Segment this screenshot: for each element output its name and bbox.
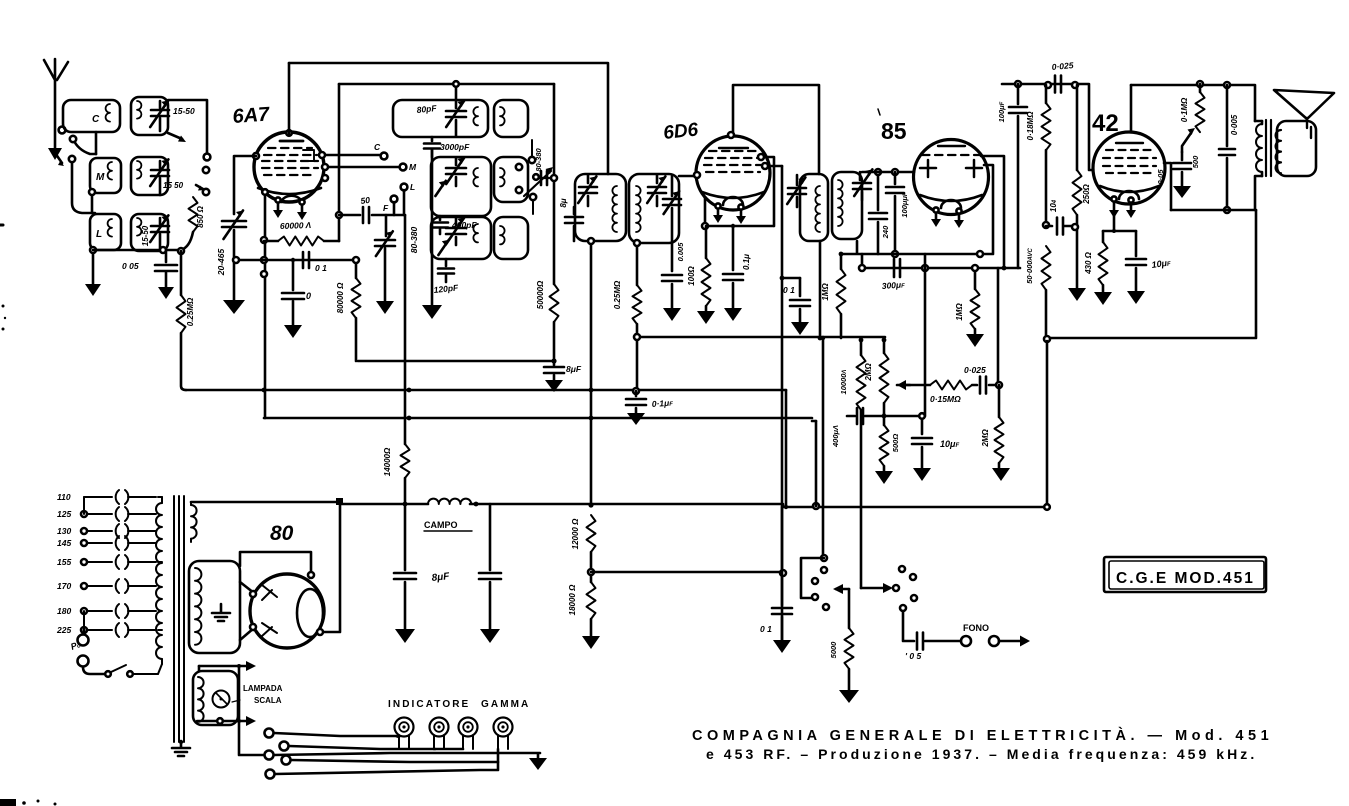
6A7 pin 1 xyxy=(273,197,283,218)
wire 85 plate right xyxy=(842,165,993,254)
terminal S3 xyxy=(203,189,209,195)
wire af row xyxy=(897,384,930,387)
wire avc down xyxy=(997,268,1000,385)
tube 6A7 xyxy=(254,132,324,202)
80 filament b xyxy=(262,623,277,636)
IF1 loops right xyxy=(636,186,641,232)
label 400uu xyxy=(831,425,840,448)
svg-text:850 Ω: 850 Ω xyxy=(196,205,205,228)
filament winding xyxy=(191,502,197,542)
IF2 trimmer left xyxy=(787,175,806,207)
42 cathode wire xyxy=(1103,212,1136,233)
svg-text:6D6: 6D6 xyxy=(662,119,699,144)
label 2M vol xyxy=(864,363,873,382)
label 850 ohm xyxy=(196,205,205,228)
terminal C osc xyxy=(374,142,387,159)
HV top wire xyxy=(240,552,311,572)
svg-text:8μF: 8μF xyxy=(566,364,582,374)
resistor 850 ohm xyxy=(189,197,198,232)
osc box2b loops xyxy=(500,168,505,186)
osc box3 trimmer xyxy=(446,217,466,245)
IF2 loops left xyxy=(815,186,820,232)
tap verticals xyxy=(84,497,88,630)
svg-text:0 1: 0 1 xyxy=(315,263,327,273)
svg-text:80: 80 xyxy=(270,522,294,545)
label 120pF xyxy=(433,282,459,295)
osc box2 xyxy=(431,157,491,216)
label 60000 xyxy=(280,220,312,231)
wire M-L link xyxy=(89,189,95,213)
outer top bus xyxy=(289,63,608,174)
svg-text:0 05: 0 05 xyxy=(122,261,139,271)
switch R contacts xyxy=(893,566,917,611)
osc box1b loops xyxy=(500,107,505,125)
wire band1 to term xyxy=(168,100,207,153)
osc padder 80-380a xyxy=(375,215,395,314)
resistor 50000 avc xyxy=(1042,246,1051,338)
svg-text:170: 170 xyxy=(57,581,71,591)
mains plug 1 xyxy=(78,630,89,646)
capacitor 300uF xyxy=(894,259,900,277)
wire L bottom to gnd xyxy=(85,247,101,296)
6A7 grids xyxy=(262,148,318,175)
label CAMPO xyxy=(424,520,472,531)
svg-text:155: 155 xyxy=(57,557,71,567)
terminal strip xyxy=(265,729,291,779)
wire 6D6 rect xyxy=(781,166,784,641)
svg-text:0.1μ: 0.1μ xyxy=(742,254,751,270)
svg-text:L: L xyxy=(96,229,102,240)
box CGE MOD451 xyxy=(1104,557,1266,592)
label 14000 xyxy=(383,447,392,476)
capacitor 120pF xyxy=(438,259,454,282)
wire 0.025 row xyxy=(1002,84,1093,170)
wire 6A7 g right M xyxy=(322,164,398,170)
svg-text:0 1: 0 1 xyxy=(783,285,795,295)
label 0.1M out xyxy=(1180,97,1189,122)
osc box3b loops xyxy=(500,226,505,244)
transformer core xyxy=(174,496,184,742)
wire 80 plate top xyxy=(191,502,340,632)
osc box2b xyxy=(494,157,528,202)
svg-text:18000 Ω: 18000 Ω xyxy=(568,584,577,615)
IF2 trimmer right xyxy=(853,169,872,200)
trimmer 15-50 b xyxy=(150,159,169,195)
wire box1 top xyxy=(453,81,459,100)
osc box3 xyxy=(431,217,491,259)
resistor 80000 xyxy=(352,257,361,361)
wire ant to M xyxy=(70,136,96,154)
label 0.025 af xyxy=(964,365,986,375)
switch arm S xyxy=(196,185,205,191)
resistor 430 xyxy=(1094,231,1112,305)
42 pin 2 xyxy=(1126,197,1136,218)
coil L box xyxy=(90,214,121,250)
band coil 1 loops xyxy=(137,101,141,119)
wire 6A7 left xyxy=(234,156,256,214)
label 18000 xyxy=(568,584,577,615)
label L xyxy=(96,229,102,240)
resistor 50000 osc xyxy=(550,284,559,361)
osc box2 loops xyxy=(473,168,478,186)
node avc xyxy=(1043,222,1049,228)
svg-text:3000pF: 3000pF xyxy=(440,142,470,152)
label 6A7 xyxy=(232,103,271,128)
label 0.05 ant xyxy=(122,261,139,271)
tone arrow xyxy=(1182,128,1195,152)
label 500 tone xyxy=(1191,155,1200,168)
band coil 3 loops xyxy=(137,218,141,236)
svg-text:15 50: 15 50 xyxy=(163,181,184,190)
svg-text:GAMMA: GAMMA xyxy=(481,699,530,710)
resistor 1000 6D6 xyxy=(697,226,715,324)
switch L contacts xyxy=(812,555,829,610)
6D6 cathode xyxy=(702,192,764,205)
svg-text:400μΛ: 400μΛ xyxy=(831,425,840,448)
HV winding box xyxy=(189,561,240,653)
capacitor 0.005 gnd xyxy=(662,275,682,321)
indicator wire 2b xyxy=(434,748,463,751)
label 500 vol xyxy=(891,434,900,453)
indicator lamps xyxy=(395,718,513,750)
svg-text:C.G.E MOD.451: C.G.E MOD.451 xyxy=(1116,570,1255,587)
wire IF1 left down xyxy=(588,238,594,505)
wire osc grid up xyxy=(336,84,342,241)
svg-text:500Ω: 500Ω xyxy=(891,434,900,453)
lamp feed vertical xyxy=(237,664,263,755)
osc box3 loops xyxy=(473,224,478,242)
svg-text:80-380: 80-380 xyxy=(409,226,419,253)
lamp wire top xyxy=(199,661,256,671)
svg-text:LAMPADA: LAMPADA xyxy=(243,684,283,693)
svg-text:100Ω: 100Ω xyxy=(687,265,696,285)
80 pins xyxy=(250,572,323,635)
node t1 xyxy=(1015,81,1078,88)
osc term r1 xyxy=(516,140,535,170)
capacitor 0.1 6D6 xyxy=(723,224,743,321)
capacitor 0.05 ant xyxy=(155,250,177,299)
6A7 grid box xyxy=(303,150,314,161)
wire C bottom to M top xyxy=(95,132,98,154)
resistor 10000 vol xyxy=(857,355,866,410)
bus G xyxy=(1044,210,1256,342)
mains plug 2 xyxy=(78,656,89,667)
svg-text:6A7: 6A7 xyxy=(232,103,271,128)
svg-text:e 453 RF. – Produzione 1937. –: e 453 RF. – Produzione 1937. – Media fre… xyxy=(706,746,1257,762)
label 1M 85 xyxy=(955,303,964,321)
dial lamp xyxy=(213,691,230,708)
capacitor 8uF A xyxy=(544,358,564,392)
svg-text:0·025: 0·025 xyxy=(1051,60,1074,72)
svg-text:0.005: 0.005 xyxy=(676,242,685,262)
label 10uF af xyxy=(940,439,959,449)
capacitor 500 tone xyxy=(1173,152,1191,198)
80 plate xyxy=(297,589,323,637)
85 diode plates xyxy=(920,160,982,177)
svg-text:0·05: 0·05 xyxy=(1156,169,1165,185)
svg-text:F: F xyxy=(383,203,389,213)
label CGE MOD451 xyxy=(1116,570,1255,587)
HV loops xyxy=(195,568,201,645)
6A7 top lead xyxy=(288,63,291,134)
label INDICATORE xyxy=(388,699,530,710)
svg-text:12000 Ω: 12000 Ω xyxy=(571,518,580,549)
label 0.18M xyxy=(1026,111,1035,141)
resistor 18000 xyxy=(582,552,600,649)
label 2M af xyxy=(981,429,990,448)
indicator wire 2 xyxy=(289,746,435,749)
label 0.1 F xyxy=(760,624,772,634)
wire ant-L xyxy=(69,156,95,213)
osc box3 arrow xyxy=(438,240,448,255)
label 240 xyxy=(881,225,890,239)
label 0.1 85 xyxy=(783,285,795,295)
IF1 box left xyxy=(575,174,626,241)
wire G down xyxy=(1044,341,1050,510)
svg-text:2MΩ: 2MΩ xyxy=(864,363,873,382)
wire 42 to out xyxy=(1164,163,1171,210)
svg-text:0.25MΩ: 0.25MΩ xyxy=(613,280,622,309)
IF2 box left xyxy=(800,174,828,241)
speaker horn xyxy=(1274,90,1334,119)
capacitor 8uF E1 xyxy=(394,504,416,643)
coil CAMPO xyxy=(428,499,471,504)
label 100 6D6 xyxy=(687,265,696,285)
terminal ant1 xyxy=(59,127,66,134)
label FONO xyxy=(963,623,989,633)
resistor 250 xyxy=(1068,85,1086,301)
capacitor 50pF xyxy=(339,207,405,223)
wire 6D6 cathode row xyxy=(702,198,773,229)
resistor 14000 xyxy=(401,444,410,504)
terminal S2 xyxy=(203,167,209,173)
osc term r2 xyxy=(516,187,536,214)
6D6 top bar xyxy=(719,147,748,149)
80 filament a xyxy=(262,585,277,600)
terminal L osc xyxy=(401,182,416,192)
node b xyxy=(178,248,184,254)
IF2 box right xyxy=(832,172,862,239)
osc box1b xyxy=(494,100,528,137)
terminal M osc xyxy=(400,162,417,172)
capacitor 0.1 85 xyxy=(780,276,810,335)
svg-text:0·18MΩ: 0·18MΩ xyxy=(1026,111,1035,141)
6A7 cathode chain xyxy=(261,189,268,418)
label 10uF 42 xyxy=(1151,257,1172,270)
label 8uu xyxy=(559,198,568,207)
85 top bar xyxy=(938,145,965,147)
label 0.005 out xyxy=(1230,114,1239,135)
osc common line xyxy=(422,150,442,319)
wire 6D6 right xyxy=(762,163,782,169)
band coil 2 box xyxy=(131,157,168,195)
svg-text:125: 125 xyxy=(57,509,71,519)
bus B xyxy=(186,389,786,392)
svg-text:20-465: 20-465 xyxy=(216,248,226,276)
resistor 12000 xyxy=(587,515,596,552)
lamp wire bottom xyxy=(197,716,256,726)
svg-text:0.25MΩ: 0.25MΩ xyxy=(186,297,195,326)
svg-text:L: L xyxy=(410,182,415,192)
osc box3b xyxy=(494,217,528,259)
band coil 3 box xyxy=(131,214,168,251)
label 0.025 top xyxy=(1051,60,1074,72)
capacitor 0.025 top xyxy=(1055,76,1061,93)
label 80-380b xyxy=(534,147,543,171)
svg-text:SCALA: SCALA xyxy=(254,696,282,705)
output transformer core xyxy=(1266,120,1271,176)
svg-text:50000Ω: 50000Ω xyxy=(536,280,545,309)
tube 6D6 xyxy=(696,136,770,210)
svg-text:130: 130 xyxy=(57,526,71,536)
coil C loops xyxy=(106,104,110,122)
terminal fono2 xyxy=(989,636,999,646)
indicator wire 4 xyxy=(291,760,498,762)
osc box2 arrow xyxy=(435,181,445,196)
node 6D6l xyxy=(694,172,700,178)
coil L loops xyxy=(108,219,112,237)
band coil 2 loops xyxy=(137,161,141,179)
label 15-50 c xyxy=(141,225,150,246)
IF1 trimmer left xyxy=(578,175,597,206)
wire sw2 drop xyxy=(821,336,825,554)
capacitor 10-4 xyxy=(1046,218,1075,235)
switch L arrow xyxy=(833,584,849,628)
lamp loops xyxy=(198,677,204,722)
svg-text:60000 Λ: 60000 Λ xyxy=(280,220,312,231)
bus F xyxy=(591,570,786,576)
bus D xyxy=(634,334,885,340)
label 50000 avc xyxy=(1025,248,1034,284)
svg-text:INDICATORE: INDICATORE xyxy=(388,699,470,710)
label 20-465 xyxy=(216,248,226,276)
capacitor 8uF E2 xyxy=(479,504,501,643)
core ground xyxy=(172,740,190,756)
wire L down xyxy=(403,190,406,215)
6A7 cathode xyxy=(258,188,321,202)
label 1M IF2 xyxy=(821,283,830,301)
label 100pF xyxy=(997,101,1006,122)
resistor 1M IF2 xyxy=(837,252,846,338)
coil M loops xyxy=(108,162,112,180)
label 300uF xyxy=(881,279,905,291)
caption line 1 xyxy=(692,727,1273,744)
svg-text:240: 240 xyxy=(881,225,890,239)
42 pin 1 xyxy=(1109,196,1119,218)
svg-text:' 0 5: ' 0 5 xyxy=(905,651,921,661)
bus B jog xyxy=(784,390,788,509)
tube 80 xyxy=(250,574,324,648)
svg-text:C: C xyxy=(374,142,381,152)
tube 85 xyxy=(914,140,989,215)
HV ground xyxy=(212,604,230,621)
bus C xyxy=(264,417,812,420)
IF1 trimmer right xyxy=(647,175,666,206)
label 0.15M xyxy=(930,394,961,404)
capacitor 0.005 out xyxy=(1219,85,1235,213)
wire 6D6 plate top xyxy=(728,85,819,174)
label 50pF xyxy=(360,195,371,206)
42 grids xyxy=(1103,150,1156,173)
capacitor 240 xyxy=(869,169,887,254)
label 400pF xyxy=(451,220,477,230)
label 6D6 xyxy=(662,119,699,144)
terminal F osc xyxy=(383,196,397,215)
label 0.1 6A7 xyxy=(315,263,327,273)
wiper arrow xyxy=(897,380,910,390)
OPT primary loops xyxy=(1256,121,1262,176)
svg-text:FONO: FONO xyxy=(963,623,989,633)
band coil 1 box xyxy=(131,97,168,135)
label 15-50 a xyxy=(173,106,195,116)
svg-text:14000Ω: 14000Ω xyxy=(383,447,392,476)
svg-text:2MΩ: 2MΩ xyxy=(981,429,990,448)
resistor 0.18M xyxy=(1042,85,1051,225)
svg-text:8μF: 8μF xyxy=(431,571,451,584)
svg-text:0·15MΩ: 0·15MΩ xyxy=(930,394,961,404)
HV to tube a xyxy=(240,582,254,593)
label 50000 osc xyxy=(536,280,545,309)
svg-text:0 1: 0 1 xyxy=(760,624,772,634)
caption line 2 xyxy=(706,746,1257,762)
svg-text:5000: 5000 xyxy=(829,641,838,659)
wire bottom row xyxy=(93,249,181,252)
wire sw R drop xyxy=(859,338,864,588)
label C xyxy=(92,114,100,125)
bus C jog xyxy=(812,420,816,423)
capacitor 0.025 af xyxy=(972,377,999,394)
85 grid dash xyxy=(922,154,981,156)
resistor 2M af xyxy=(992,385,1010,481)
capacitor 0.05 fono xyxy=(917,633,961,650)
IF2 loops right xyxy=(838,180,843,226)
svg-text:1MΩ: 1MΩ xyxy=(955,303,964,321)
6A7 top bar xyxy=(280,130,303,141)
42 plate lead xyxy=(1130,85,1133,132)
wire 42 plate bus xyxy=(1131,81,1255,121)
label 0.25M ant xyxy=(186,297,195,326)
node B 0.1 xyxy=(633,388,639,394)
osc box1 trimmer xyxy=(446,100,466,136)
capacitor 100pF xyxy=(1009,84,1027,268)
label 430 xyxy=(1084,251,1093,275)
resistor 0.1M out xyxy=(1196,84,1205,132)
terminal S1 xyxy=(204,154,211,161)
label 8uF A xyxy=(566,364,582,374)
node busE phono xyxy=(813,503,819,509)
trimmer 15-50 c xyxy=(150,215,169,250)
tube 42 xyxy=(1093,132,1165,204)
label LAMPADA xyxy=(232,684,283,705)
42 top bar xyxy=(1116,142,1143,144)
label 10000 vol xyxy=(839,370,848,395)
mains voltage taps xyxy=(56,490,156,637)
wire sw1 drop xyxy=(815,421,818,506)
terminal fono1 xyxy=(961,636,971,646)
capacitor 400pF xyxy=(432,216,448,234)
wire 6A7 plate right C xyxy=(253,152,380,181)
svg-text:0·005: 0·005 xyxy=(1230,114,1239,135)
wire grid2 xyxy=(233,257,356,263)
label 0 cap xyxy=(306,291,311,301)
resistor 60000 xyxy=(264,237,339,246)
IF1 cap2 xyxy=(663,175,681,271)
svg-text:500: 500 xyxy=(1191,155,1200,168)
label 10-4 xyxy=(1049,199,1058,212)
85 cathode xyxy=(920,195,982,208)
85 pin 2 xyxy=(954,208,964,228)
svg-text:0: 0 xyxy=(306,291,311,301)
